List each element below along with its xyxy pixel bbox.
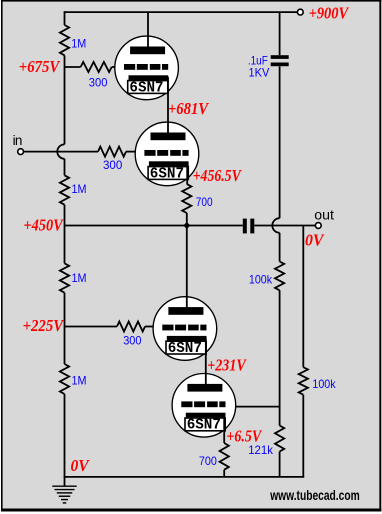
capacitor C1 bottom plate <box>271 63 289 67</box>
wire right rail seg2 <box>302 395 304 477</box>
svg-text:1M: 1M <box>72 271 87 285</box>
svg-text:+681V: +681V <box>168 99 210 118</box>
wire C2 to out terminal <box>254 225 315 227</box>
ground <box>52 477 77 503</box>
resistor R11 300 <box>117 322 145 332</box>
resistor R10 121k <box>275 426 284 452</box>
resistor R3 1M <box>60 263 69 292</box>
svg-text:100k: 100k <box>312 377 336 391</box>
wire R5 to U1 grid <box>112 66 116 68</box>
terminal in <box>18 149 24 155</box>
wire 675V node to R5 <box>65 66 81 68</box>
svg-text:6SN7: 6SN7 <box>150 164 184 182</box>
wire R11 to U3 grid <box>145 326 154 328</box>
triode U3 6SN7 <box>153 297 217 361</box>
wire out node down right rail <box>302 226 304 368</box>
svg-text:in: in <box>13 133 23 148</box>
wire cap rail seg4 <box>279 290 281 425</box>
wire 450V node line <box>65 225 243 227</box>
svg-text:300: 300 <box>123 334 142 348</box>
wire cap rail top <box>279 12 281 55</box>
wire left rail seg5 <box>64 293 66 364</box>
capacitor C2 left plate <box>243 219 247 234</box>
wire cap rail seg5 <box>279 452 281 477</box>
wire cap rail seg3 <box>279 233 281 262</box>
svg-text:+231V: +231V <box>207 355 247 374</box>
wire hop over in line <box>57 144 64 158</box>
resistor R4 1M <box>60 364 69 394</box>
wire R12 to bottom rail <box>223 470 225 477</box>
terminal +900V <box>297 9 303 15</box>
svg-text:300: 300 <box>103 158 123 172</box>
triode U4 6SN7 <box>172 374 236 438</box>
svg-text:+675V: +675V <box>19 57 61 76</box>
wire bottom ground rail <box>64 476 305 478</box>
svg-text:6SN7: 6SN7 <box>129 78 163 96</box>
wire U4 grid to divider <box>236 406 280 408</box>
svg-text:1M: 1M <box>72 182 87 196</box>
svg-text:0V: 0V <box>305 231 325 250</box>
wire U3 cathode to U4 plate <box>205 338 207 392</box>
svg-text:+6.5V: +6.5V <box>226 426 262 445</box>
svg-text:700: 700 <box>199 454 217 468</box>
wire 225V node to R11 <box>65 326 118 328</box>
capacitor C1 top plate <box>271 55 289 59</box>
svg-text:+900V: +900V <box>309 4 350 23</box>
resistor R5 300 <box>81 62 112 72</box>
svg-text:700: 700 <box>196 195 213 209</box>
svg-text:+456.5V: +456.5V <box>193 166 243 185</box>
svg-text:+450V: +450V <box>23 216 64 235</box>
triode U2 6SN7 <box>135 122 199 186</box>
resistor R6 300 <box>98 147 126 157</box>
svg-text:100k: 100k <box>249 273 273 287</box>
wire U2 cathode lead <box>186 163 188 184</box>
wire left rail seg4 <box>64 205 66 264</box>
wire U1 cathode to U2 plate <box>167 77 169 140</box>
resistor R2 1M <box>60 175 69 204</box>
svg-text:1KV: 1KV <box>249 65 270 79</box>
svg-text:0V: 0V <box>71 456 91 475</box>
svg-text:6SN7: 6SN7 <box>187 416 221 434</box>
wire left rail top segment <box>64 11 66 25</box>
wire hop over out line <box>272 218 279 233</box>
svg-text:1M: 1M <box>71 37 86 51</box>
svg-text:6SN7: 6SN7 <box>168 339 202 357</box>
capacitor C2 right plate <box>250 219 254 234</box>
resistor R7 700 <box>182 184 191 213</box>
wire in line <box>24 151 99 153</box>
resistor R1 1M <box>60 25 69 55</box>
wire left rail seg2 <box>64 55 66 144</box>
triode U1 6SN7 <box>115 36 179 100</box>
wire U1 plate lead <box>147 12 149 54</box>
svg-text:out: out <box>314 207 334 222</box>
resistor R12 700 <box>220 443 229 470</box>
wire R6 to U2 grid <box>126 151 137 153</box>
wire U3 plate lead <box>186 226 188 315</box>
junction dot 450V node <box>183 222 190 229</box>
svg-text:300: 300 <box>89 76 108 90</box>
resistor R8 100k <box>275 262 284 291</box>
svg-text:www.tubecad.com: www.tubecad.com <box>269 488 359 503</box>
wire top B+ rail <box>65 11 298 13</box>
svg-text:1M: 1M <box>72 373 87 387</box>
wire cap rail seg2 <box>279 66 281 218</box>
wire left rail seg3 <box>64 159 66 176</box>
wire R7 to 450V node <box>186 213 188 226</box>
resistor R9 100k <box>299 367 308 395</box>
terminal out <box>315 223 321 229</box>
wire left rail seg6 <box>64 394 66 477</box>
svg-text:+225V: +225V <box>23 316 65 335</box>
wire U4 cathode lead <box>223 414 225 443</box>
